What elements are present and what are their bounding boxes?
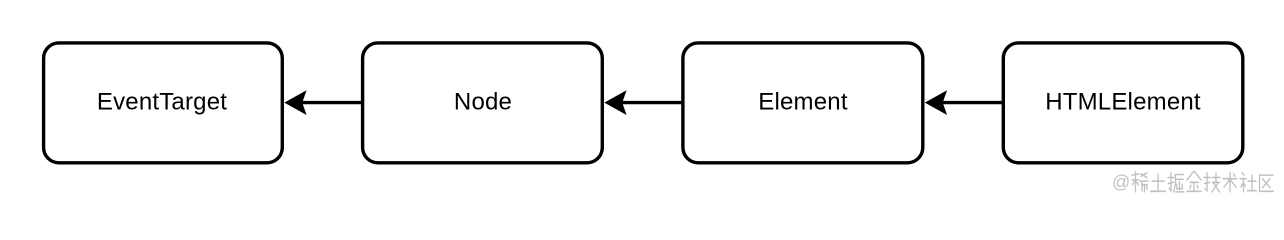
watermark glyph 区 [1260,175,1274,191]
watermark glyph 稀 [1132,172,1148,192]
svg-text:@: @ [1112,172,1130,192]
svg-text:Element: Element [758,88,848,115]
arrow HTMLElement to Element [925,90,1002,115]
watermark glyph 术 [1223,173,1237,192]
watermark glyph 技 [1204,173,1220,192]
node box HTMLElement [1003,43,1243,163]
svg-text:Node: Node [454,88,512,115]
svg-text:HTMLElement: HTMLElement [1045,88,1201,115]
watermark glyph 掘 [1168,173,1184,192]
node box Element [683,43,923,163]
watermark glyph 社 [1240,173,1257,192]
svg-text:EventTarget: EventTarget [97,88,227,115]
arrow Node to EventTarget [284,90,361,115]
watermark glyph 金 [1187,172,1201,192]
node box EventTarget [44,43,283,163]
arrow Element to Node [604,90,681,115]
node box Node [363,43,603,163]
watermark glyph 土 [1151,174,1166,191]
watermark @稀土掘金技术社区 [1112,172,1274,193]
